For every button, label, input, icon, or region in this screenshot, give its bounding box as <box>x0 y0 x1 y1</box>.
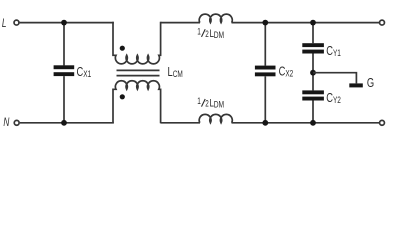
label half LDM bottom <box>197 96 224 110</box>
phase dot bottom <box>120 94 125 99</box>
terminal L <box>14 20 19 25</box>
wire bottom middle <box>161 122 201 124</box>
inductor LCM top winding <box>113 22 161 64</box>
svg-text:1: 1 <box>197 26 201 36</box>
capacitor CX2 <box>255 23 276 123</box>
wire N input <box>20 122 114 124</box>
phase dot top <box>120 46 125 51</box>
wire bottom right <box>232 122 380 124</box>
svg-text:DM: DM <box>214 30 225 40</box>
wire to ground <box>313 73 356 84</box>
capacitor CY2 <box>302 73 324 123</box>
core line upper <box>117 69 160 71</box>
node CY top <box>310 20 316 26</box>
wire top right <box>232 22 380 24</box>
svg-text:2: 2 <box>205 98 209 108</box>
core line lower <box>117 75 160 77</box>
svg-text:G: G <box>367 77 374 91</box>
svg-text:CY1: CY1 <box>326 45 341 59</box>
inductor LDM top <box>199 14 232 22</box>
svg-text:L: L <box>2 18 7 31</box>
terminal out top <box>380 20 385 25</box>
node CY bottom <box>310 120 316 126</box>
node CX2 top <box>262 20 268 26</box>
node CX2 bottom <box>262 120 268 126</box>
svg-text:LCM: LCM <box>168 66 183 80</box>
svg-text:1: 1 <box>197 96 201 106</box>
node CX1 bottom <box>61 120 67 126</box>
node CY middle <box>310 70 316 76</box>
wire top middle <box>161 22 201 24</box>
svg-text:DM: DM <box>214 100 225 110</box>
terminal N <box>14 120 19 125</box>
capacitor CX1 <box>54 23 75 123</box>
svg-text:CY2: CY2 <box>326 92 341 106</box>
label half LDM top <box>197 26 224 40</box>
wire L input <box>20 22 114 24</box>
ground bar G <box>349 83 363 87</box>
svg-text:CX1: CX1 <box>77 66 92 80</box>
svg-text:CX2: CX2 <box>279 65 294 79</box>
terminal out bottom <box>380 120 385 125</box>
svg-text:2: 2 <box>205 29 209 39</box>
inductor LCM bottom winding <box>113 81 161 124</box>
svg-text:N: N <box>3 117 10 130</box>
capacitor CY1 <box>302 23 324 73</box>
node CX1 top <box>61 20 67 26</box>
inductor LDM bottom <box>199 114 232 122</box>
